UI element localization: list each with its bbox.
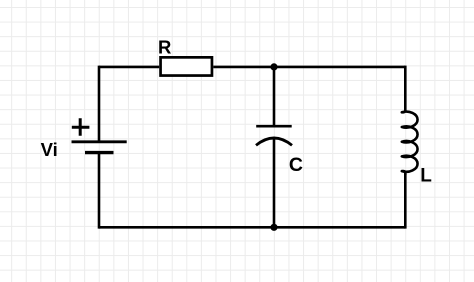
svg-text:Vi: Vi [41, 139, 58, 160]
wire left upper segment (top wire down to battery + plate) [98, 66, 101, 141]
wire top-right segment (R to node A) [213, 66, 405, 69]
svg-text:C: C [289, 154, 303, 176]
wire middle upper segment (node A down to capacitor) [273, 67, 276, 126]
battery Vi plus polarity mark [72, 118, 90, 136]
svg-text:L: L [420, 166, 432, 187]
wire right upper segment (node A to inductor L) [404, 66, 407, 112]
battery source Vi positive (long) plate [72, 140, 127, 143]
wire bottom segment [99, 226, 405, 229]
wire left lower segment (battery - plate down to bottom wire) [98, 154, 101, 229]
node B junction dot (bottom, C return) [270, 224, 277, 231]
capacitor C bottom curved plate [256, 138, 292, 145]
wire top-left segment (Vi+ to R) [99, 66, 159, 69]
resistor R body [161, 57, 212, 75]
node A junction dot (top, R/C/L) [270, 63, 277, 70]
capacitor C top plate [256, 125, 292, 128]
svg-text:R: R [158, 37, 171, 58]
wire right lower segment (inductor L to bottom wire) [404, 171, 407, 229]
wire middle lower segment (capacitor to node B) [273, 138, 276, 227]
inductor L coil (4 humps) [402, 110, 418, 175]
battery source Vi negative (short) plate [85, 151, 114, 154]
